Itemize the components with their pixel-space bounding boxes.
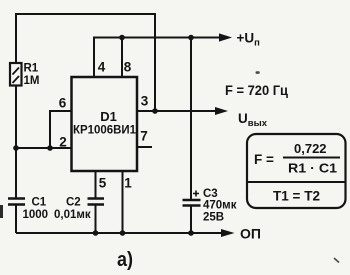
- power arrow +Un: [219, 33, 232, 41]
- svg-text:0,01мк: 0,01мк: [54, 209, 91, 221]
- scan tick bottom right: [334, 258, 339, 263]
- svg-text:ОП: ОП: [240, 226, 261, 242]
- node junction output on pin3 line: [152, 108, 158, 114]
- node junction pin6 on pin2 line: [47, 145, 53, 151]
- svg-text:470мк: 470мк: [203, 200, 237, 212]
- node junction C3 on ground rail: [188, 230, 194, 236]
- wire pin 2 to left vertical: [16, 147, 72, 149]
- svg-text:C1: C1: [32, 197, 47, 209]
- wire pin 7 stub: [137, 146, 152, 148]
- wire pin 8 up to +Un rail: [121, 38, 123, 79]
- capacitor C3 polarized: [183, 191, 201, 206]
- node junction pin1 on ground rail: [120, 230, 126, 236]
- op-amp U1: timer IC D1 KR1006VI1 body: [72, 77, 138, 171]
- formula box divider: [247, 181, 346, 183]
- svg-text:R1: R1: [24, 63, 39, 75]
- svg-text:C2: C2: [66, 197, 81, 209]
- ground arrow OP: [221, 229, 235, 237]
- wire C3 bottom to ground rail: [190, 206, 192, 234]
- svg-text:1: 1: [124, 176, 132, 191]
- wire pin 5 to C2 top: [95, 171, 97, 199]
- svg-text:3: 3: [141, 94, 149, 109]
- wire pin 1 to ground rail: [122, 171, 124, 233]
- svg-text:F =: F =: [254, 152, 274, 167]
- label C3 value: [203, 188, 237, 224]
- svg-text:7: 7: [140, 129, 148, 144]
- formula box frame: [247, 134, 346, 208]
- svg-text:R1 · C1: R1 · C1: [288, 161, 337, 176]
- wire R1 bottom to C1 top: [15, 85, 17, 199]
- label C2 value: [54, 197, 91, 222]
- wire pin 6 down to pin 2 line: [50, 111, 72, 148]
- svg-text:1000: 1000: [23, 209, 49, 221]
- svg-text:2: 2: [59, 135, 67, 150]
- svg-text:8: 8: [124, 60, 132, 75]
- wire pin 3 to output arrow: [137, 110, 216, 112]
- wire +Un rail down to C3 top: [190, 38, 192, 201]
- svg-text:25В: 25В: [203, 212, 224, 224]
- svg-text:а): а): [117, 249, 133, 271]
- node junction C3 on +Un rail: [188, 35, 194, 41]
- wire C2 bottom to ground rail: [95, 205, 97, 234]
- capacitor C1: [8, 199, 25, 205]
- fraction bar: [283, 157, 340, 159]
- svg-text:T1 = T2: T1 = T2: [273, 189, 320, 204]
- svg-text:4: 4: [98, 60, 106, 75]
- node junction C2 on ground rail: [93, 230, 99, 236]
- svg-text:F = 720 Гц: F = 720 Гц: [225, 83, 289, 98]
- svg-text:C3: C3: [203, 188, 218, 200]
- resistor R1: [10, 63, 22, 86]
- scan smudge left edge: [0, 205, 3, 218]
- svg-text:+Uп: +Uп: [237, 31, 261, 49]
- wire pin 4 up to +Un rail: [94, 38, 219, 79]
- svg-text:КР1006ВИ1: КР1006ВИ1: [73, 125, 137, 137]
- wire C1 bottom to ground rail: [15, 205, 17, 234]
- scan speck near +Un wire: [256, 71, 260, 74]
- svg-text:5: 5: [99, 176, 107, 191]
- svg-text:6: 6: [59, 96, 67, 111]
- label R1 value: [24, 63, 40, 88]
- node junction pin8 on +Un rail: [119, 35, 125, 41]
- wire ground rail (OP): [16, 232, 222, 234]
- label C1 value: [23, 197, 49, 222]
- svg-text:Uвых: Uвых: [238, 111, 268, 129]
- capacitor C2: [88, 199, 105, 205]
- svg-text:1M: 1M: [24, 75, 40, 87]
- node junction pin2 on left vertical: [13, 145, 19, 151]
- svg-text:0,722: 0,722: [294, 141, 327, 156]
- output arrow Uvyh: [215, 107, 228, 115]
- wire top loop: pin3 output to R1 top: [16, 14, 155, 111]
- svg-text:D1: D1: [100, 109, 117, 124]
